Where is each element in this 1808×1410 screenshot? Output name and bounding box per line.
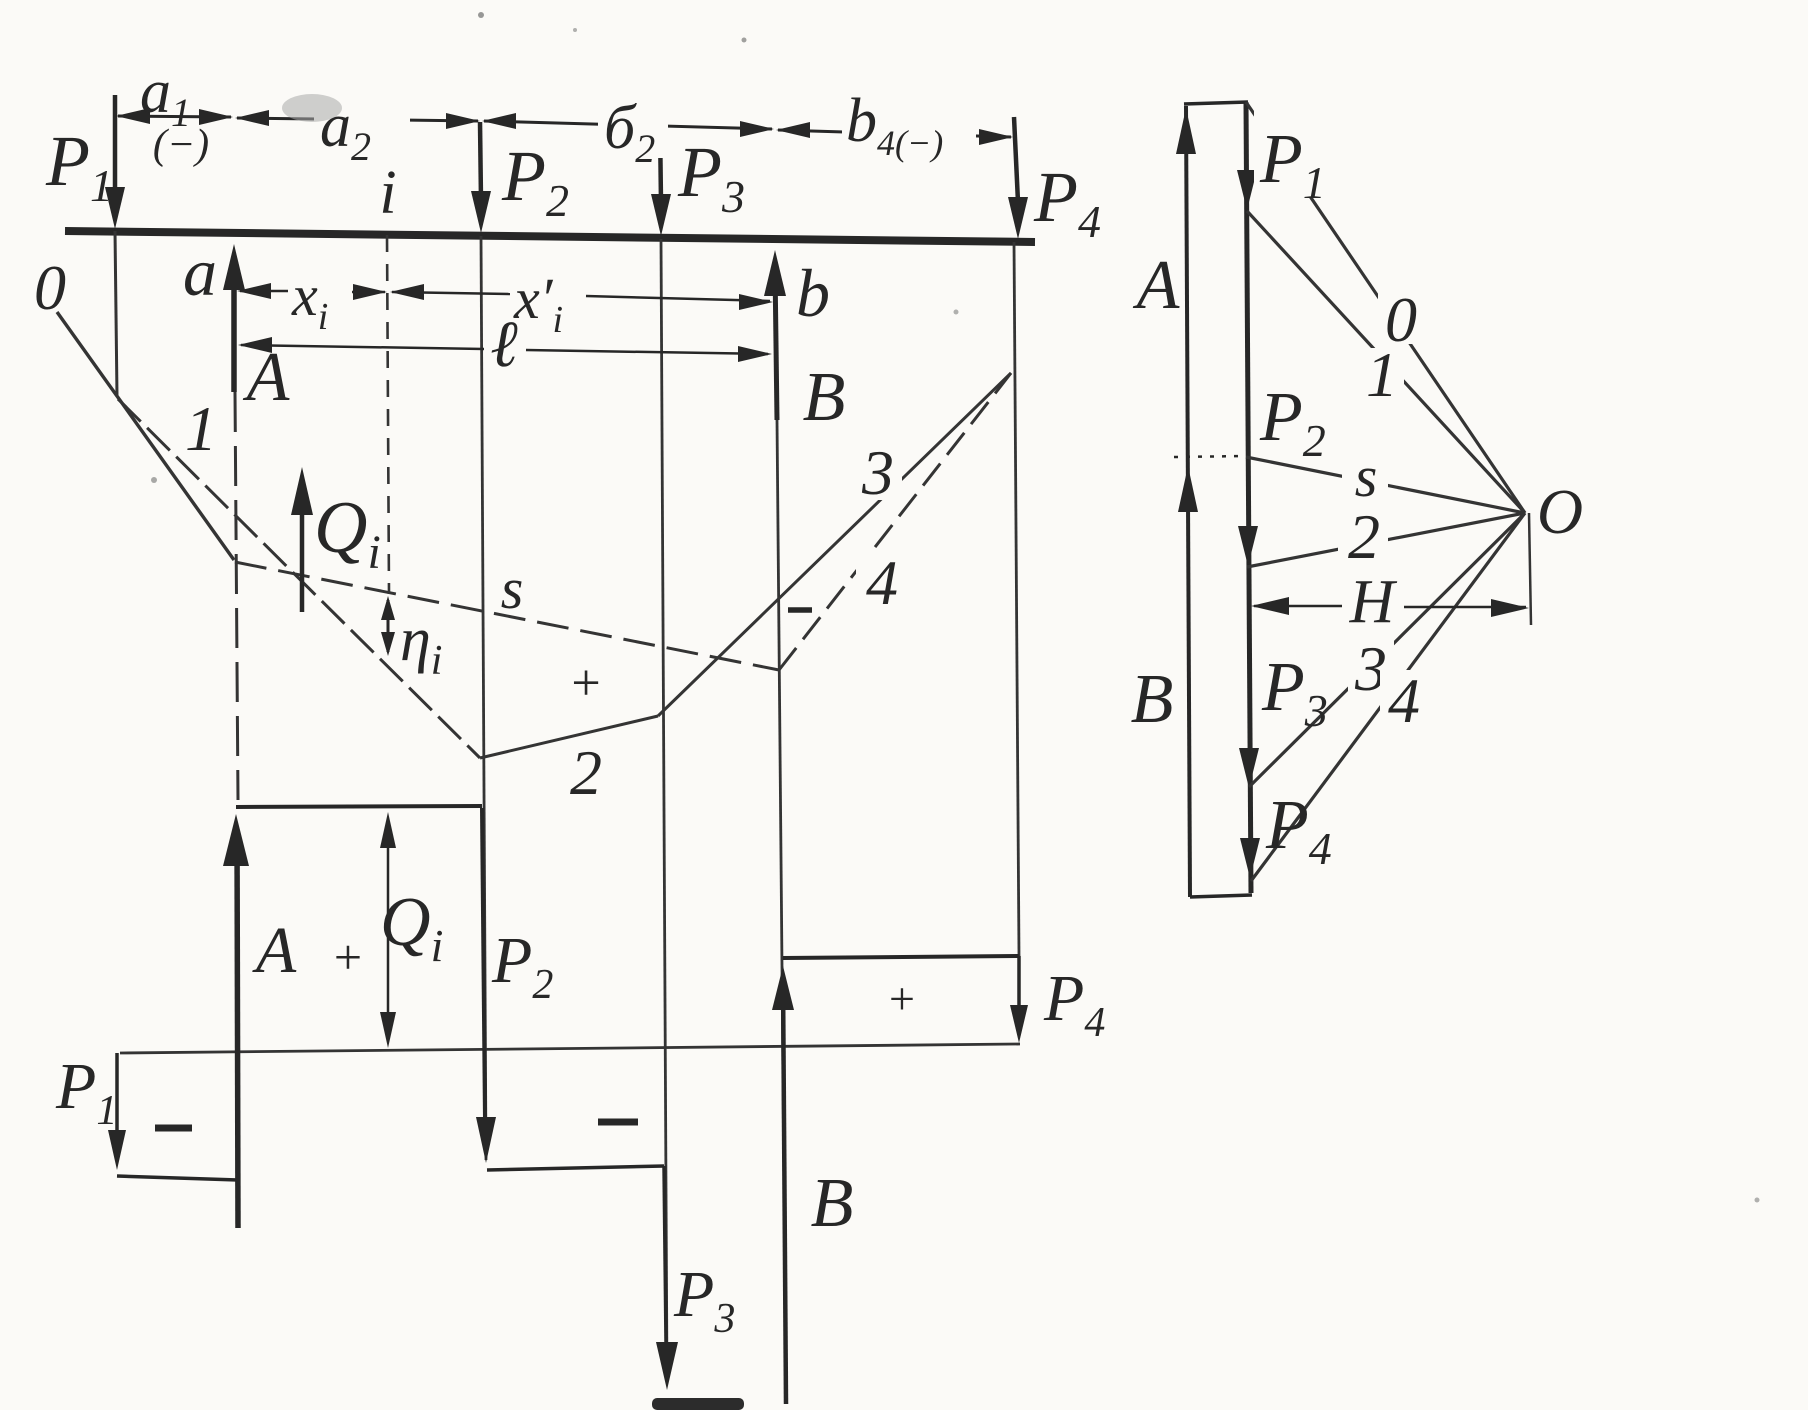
svg-text:4: 4 <box>866 547 898 618</box>
label A reaction <box>1133 247 1180 324</box>
svg-text:2: 2 <box>1348 501 1380 572</box>
svg-text:B: B <box>811 1165 854 1242</box>
closing line s <box>235 556 779 670</box>
svg-text:B: B <box>803 359 846 436</box>
funicular side 1 label <box>185 393 217 464</box>
funicular side 1 <box>118 399 480 758</box>
section label i <box>379 159 396 227</box>
shear P4 drop <box>1010 956 1105 1046</box>
label B reaction <box>1131 661 1174 738</box>
dimension l <box>238 308 772 381</box>
section line i dashed <box>387 235 389 594</box>
label P4 force <box>1265 787 1332 874</box>
svg-text:0: 0 <box>34 252 66 323</box>
shear top plateau <box>236 806 482 807</box>
ray 4 label <box>1380 665 1428 736</box>
support label A <box>243 339 290 416</box>
dimension a1 <box>116 58 233 168</box>
support reaction a arrow <box>183 234 245 392</box>
shear reaction A arrow <box>223 814 249 1228</box>
svg-text:A: A <box>1133 247 1180 324</box>
svg-text:A: A <box>252 914 297 987</box>
support label B <box>803 359 846 436</box>
shear reaction B arrow <box>772 966 853 1404</box>
funicular side 0 <box>34 252 234 560</box>
ray 3 label <box>1348 633 1394 704</box>
ray 2 label <box>1338 501 1388 572</box>
specks <box>151 12 1760 1203</box>
svg-text:3: 3 <box>861 437 894 508</box>
shear P1 bottom <box>117 1176 238 1180</box>
minus sign near B <box>788 607 812 613</box>
label P1 force <box>1254 104 1326 208</box>
ray 0 label <box>1378 284 1424 355</box>
force polygon load line <box>1237 102 1260 893</box>
shear P1 drop <box>55 1050 126 1170</box>
beam <box>65 231 1035 242</box>
label P3 force <box>1261 649 1328 736</box>
funicular side 4 dashed <box>779 373 1011 670</box>
dimension xi-prime <box>390 266 773 341</box>
svg-text:O: O <box>1537 476 1583 547</box>
svg-text:+: + <box>889 973 915 1024</box>
dimension a2 <box>235 92 480 169</box>
shear Qi double arrow <box>252 812 444 1048</box>
force polygon bottom tick <box>1190 895 1252 897</box>
label P2 force <box>1259 379 1326 466</box>
shear P4 plateau <box>783 956 1019 958</box>
line of action P4 <box>1014 242 1019 956</box>
dimension xi <box>237 263 387 338</box>
ray s label <box>1342 444 1388 509</box>
shear ordinate Qi arrow <box>291 467 381 612</box>
divider dotted <box>1174 456 1246 457</box>
shear minus left <box>155 1125 192 1132</box>
dimension H <box>1251 568 1529 636</box>
svg-text:ℓ: ℓ <box>490 308 518 381</box>
svg-text:s: s <box>1355 444 1378 509</box>
shear P2 drop arrow <box>476 808 553 1163</box>
svg-text:(−): (−) <box>153 122 209 168</box>
svg-text:+: + <box>334 929 362 985</box>
scan smudge <box>282 94 342 122</box>
svg-text:H: H <box>1349 568 1398 636</box>
svg-text:2: 2 <box>570 737 602 808</box>
force polygon reaction line <box>1176 106 1198 897</box>
pole drop line <box>1529 513 1531 625</box>
svg-text:1: 1 <box>1366 339 1398 410</box>
ray 1 label <box>1360 339 1404 410</box>
line of action P2 <box>481 236 486 1160</box>
shear P3 drop arrow <box>656 1166 735 1390</box>
shear P2 bottom <box>487 1166 664 1170</box>
force polygon top tick <box>1184 102 1248 104</box>
support reaction b arrow <box>764 250 830 420</box>
shear minus mid <box>598 1119 638 1126</box>
ray 4 <box>1251 513 1525 881</box>
ray 1 <box>1247 211 1525 513</box>
bottom smudge <box>652 1398 744 1410</box>
line of action P1 <box>115 231 117 396</box>
moment ordinate eta-i arrow <box>381 596 442 684</box>
load P2 arrow <box>471 122 569 233</box>
dimension b4 <box>776 87 1013 163</box>
label pole O <box>1537 476 1583 547</box>
plus sign moment area <box>571 655 600 712</box>
ray s <box>1246 457 1525 513</box>
line of action A dashed <box>235 392 238 800</box>
load P3 arrow <box>651 125 745 236</box>
svg-text:s: s <box>501 556 524 621</box>
line of action P3 <box>661 239 667 1380</box>
shear baseline <box>120 1044 1020 1053</box>
shear plus sign <box>889 973 915 1024</box>
svg-text:4: 4 <box>1388 665 1420 736</box>
funicular side 2 <box>480 716 658 808</box>
load P1 arrow <box>45 95 125 229</box>
ray 0 <box>1246 102 1525 513</box>
svg-text:B: B <box>1131 661 1174 738</box>
svg-text:1: 1 <box>185 393 217 464</box>
svg-text:+: + <box>571 655 600 712</box>
svg-text:b: b <box>796 255 830 331</box>
ray 3 <box>1249 513 1525 787</box>
svg-text:a: a <box>183 234 217 310</box>
load P4 arrow <box>1008 117 1101 247</box>
dimension b2 <box>482 94 774 171</box>
ray 2 <box>1247 513 1525 567</box>
svg-text:i: i <box>379 159 396 227</box>
funicular side 3 <box>658 373 1011 716</box>
line of action B <box>777 420 786 1404</box>
